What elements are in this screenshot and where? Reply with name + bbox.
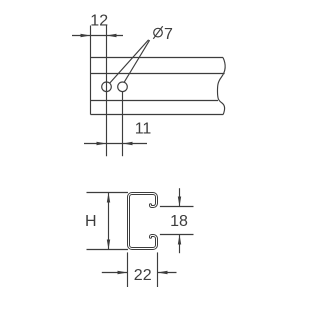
svg-text:12: 12 [90,12,108,29]
svg-text:7: 7 [164,26,173,43]
svg-text:18: 18 [170,213,188,230]
svg-text:11: 11 [135,121,152,138]
svg-text:H: H [85,213,97,230]
svg-text:22: 22 [134,267,152,284]
